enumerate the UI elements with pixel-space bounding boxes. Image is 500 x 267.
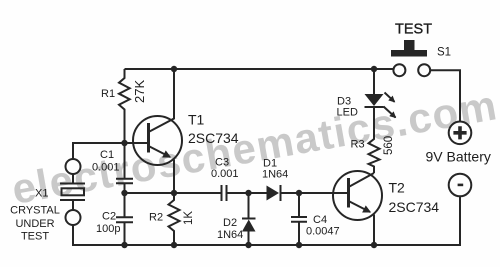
switch S1 left contact xyxy=(393,64,405,76)
junction C1 / C2 / mid rail xyxy=(121,190,127,196)
svg-text:27K: 27K xyxy=(132,80,147,103)
svg-text:D2: D2 xyxy=(223,217,237,229)
LED D3 cathode bar xyxy=(365,106,384,108)
svg-text:0.001: 0.001 xyxy=(92,162,120,174)
diode D1 cathode bar xyxy=(280,185,282,201)
battery minus terminal circle xyxy=(449,174,472,197)
wire C3 to D1 xyxy=(228,192,267,194)
svg-text:2SC734: 2SC734 xyxy=(188,130,239,146)
resistor R1 xyxy=(119,69,130,143)
LED D3 triangle xyxy=(365,94,384,106)
svg-text:1N64: 1N64 xyxy=(262,169,288,181)
LED D3 wire xyxy=(373,69,375,94)
svg-text:S1: S1 xyxy=(437,47,451,59)
svg-text:1N64: 1N64 xyxy=(217,229,243,241)
transistor T1 emitter arrow xyxy=(150,147,171,158)
switch S1 plunger bar xyxy=(391,50,427,57)
svg-text:9V Battery: 9V Battery xyxy=(426,149,491,165)
transistor T1 base bar xyxy=(147,123,150,153)
battery minus sign xyxy=(458,184,464,187)
transistor T2 circle xyxy=(333,171,382,220)
svg-text:0.001: 0.001 xyxy=(211,168,239,180)
svg-text:TEST: TEST xyxy=(21,231,49,243)
wire T2 emitter to bottom rail xyxy=(373,215,375,246)
wire crystal top to base node xyxy=(73,143,149,159)
svg-text:TEST: TEST xyxy=(395,22,432,38)
svg-text:2SC734: 2SC734 xyxy=(389,199,440,215)
svg-text:C2: C2 xyxy=(102,211,116,223)
junction T1 collector / top rail xyxy=(171,66,177,72)
junction C4 / T2 base node xyxy=(296,190,302,196)
svg-text:R2: R2 xyxy=(149,212,163,224)
svg-text:R3: R3 xyxy=(351,139,365,151)
svg-text:C3: C3 xyxy=(215,157,229,169)
svg-text:C4: C4 xyxy=(313,214,327,226)
junction T1 emitter / R2 / mid rail xyxy=(171,190,177,196)
crystal X1 top test terminal xyxy=(66,159,81,174)
wire D1 to T2 base xyxy=(282,192,348,194)
junction R1 / C1 / T1 base node xyxy=(121,140,127,146)
crystal X1 plates xyxy=(60,174,85,210)
capacitor C3 xyxy=(222,185,227,201)
diode D1 triangle xyxy=(267,186,280,201)
diode D2 triangle xyxy=(242,220,256,232)
switch S1 plunger stem xyxy=(404,40,415,51)
LED D3 light arrow 2 xyxy=(384,107,396,118)
transistor T1 collector lead xyxy=(150,69,175,132)
svg-text:C1: C1 xyxy=(100,149,114,161)
svg-text:560: 560 xyxy=(383,136,395,155)
battery plus terminal circle xyxy=(449,122,472,145)
svg-text:LED: LED xyxy=(337,107,358,119)
junction R2 / bottom rail xyxy=(171,242,177,248)
junction T2 emitter / bottom rail xyxy=(371,242,377,248)
switch S1 right contact xyxy=(418,64,430,76)
junction C2 / bottom rail xyxy=(121,242,127,248)
capacitor C4 xyxy=(291,193,307,245)
svg-text:T1: T1 xyxy=(188,112,205,128)
transistor T2 emitter arrow xyxy=(350,202,371,213)
transistor T2 collector lead xyxy=(350,173,375,187)
capacitor C1 xyxy=(116,143,133,193)
crystal X1 body xyxy=(62,188,85,195)
transistor T1 circle xyxy=(133,116,182,165)
wire S1 right to battery plus xyxy=(430,70,460,121)
junction D2 / mid rail xyxy=(245,190,251,196)
svg-text:UNDER: UNDER xyxy=(15,218,54,230)
svg-text:T2: T2 xyxy=(389,180,406,196)
wire mid rail left xyxy=(125,192,221,194)
svg-text:1K: 1K xyxy=(183,211,195,225)
junction D2 / bottom rail xyxy=(245,242,251,248)
diode D2 xyxy=(242,193,256,245)
wire battery minus to bottom rail xyxy=(73,196,460,245)
resistor R3 xyxy=(369,108,380,173)
junction D3 / top rail xyxy=(371,66,377,72)
crystal X1 bottom test terminal xyxy=(66,210,81,225)
LED D3 light arrow 1 xyxy=(385,93,395,102)
svg-text:X1: X1 xyxy=(35,188,48,200)
svg-text:100p: 100p xyxy=(96,223,120,235)
capacitor C2 xyxy=(116,193,133,245)
battery plus sign xyxy=(453,126,466,139)
junction C4 / bottom rail xyxy=(296,242,302,248)
svg-text:0.0047: 0.0047 xyxy=(306,226,340,238)
resistor R2 xyxy=(169,193,180,245)
svg-text:R1: R1 xyxy=(101,88,115,100)
wire T1 emitter to mid rail xyxy=(173,160,175,194)
svg-text:CRYSTAL: CRYSTAL xyxy=(10,205,60,217)
transistor T2 base bar xyxy=(347,178,350,208)
wire top rail xyxy=(125,68,394,70)
